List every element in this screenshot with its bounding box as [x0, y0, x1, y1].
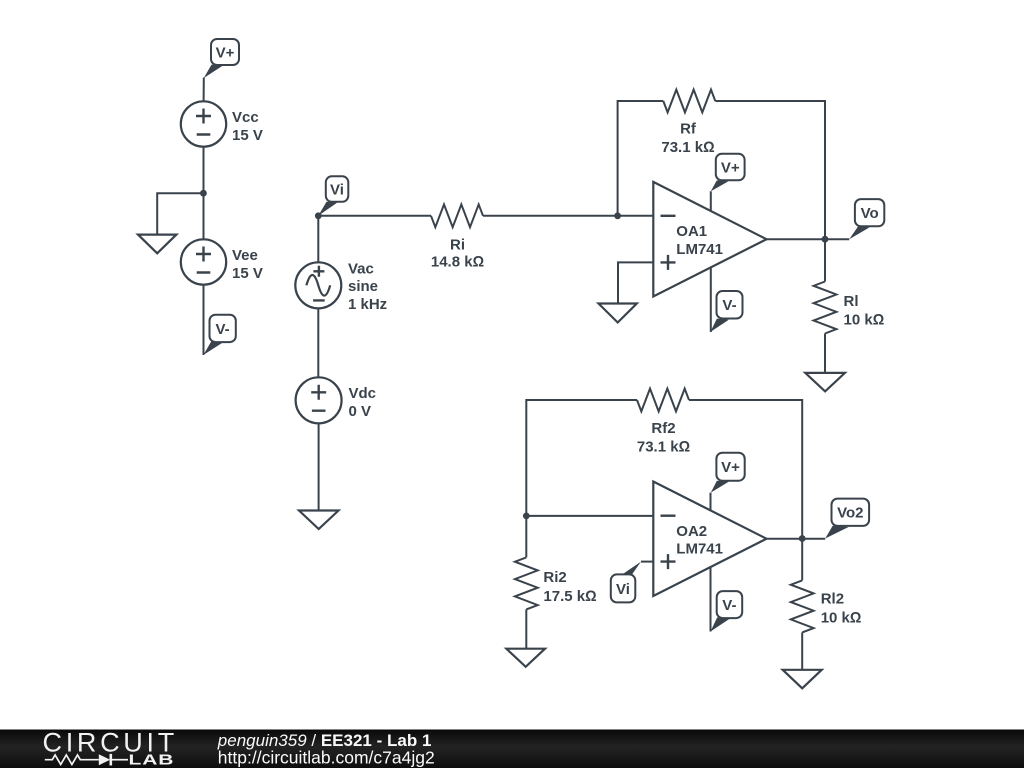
voltage source Vee 15 V [181, 239, 263, 284]
wire Rl to ground [824, 334, 826, 373]
ground (Rl) [805, 373, 845, 392]
svg-text:73.1 kΩ: 73.1 kΩ [637, 439, 690, 456]
node OA1 output junction [822, 236, 829, 243]
resistor Rl2 10 k [791, 580, 862, 632]
svg-text:Rf: Rf [680, 120, 697, 137]
resistor Rf2 73.1 k [637, 389, 690, 456]
svg-text:LM741: LM741 [676, 241, 723, 258]
wire junction to ground [157, 193, 203, 234]
svg-text:LAB: LAB [129, 752, 175, 768]
svg-text:Rl2: Rl2 [821, 591, 844, 608]
ground (Rl2) [783, 670, 822, 689]
svg-text:V-: V- [722, 297, 736, 314]
svg-text:Vdc: Vdc [349, 385, 377, 402]
svg-text:http://circuitlab.com/c7a4jg2: http://circuitlab.com/c7a4jg2 [218, 748, 435, 768]
svg-text:Vcc: Vcc [232, 109, 259, 126]
svg-text:Rf2: Rf2 [651, 420, 675, 437]
svg-text:Ri: Ri [450, 237, 465, 254]
svg-text:10 kΩ: 10 kΩ [844, 312, 885, 329]
svg-text:14.8 kΩ: 14.8 kΩ [431, 253, 484, 270]
resistor Ri2 17.5 k [515, 557, 597, 609]
wire feedback left riser OA2 [526, 400, 637, 557]
wire Ri to inverting node [483, 215, 653, 217]
svg-text:Vee: Vee [232, 247, 258, 264]
net flag Vi (OA2 + input) [611, 562, 641, 603]
svg-text:1 kHz: 1 kHz [348, 296, 387, 313]
wire Vee to V- [203, 285, 205, 355]
net flag Vo2 [825, 499, 869, 539]
svg-text:Vo: Vo [861, 205, 879, 222]
footer bar [0, 730, 1024, 768]
voltage source Vac sine 1 kHz [295, 261, 387, 313]
node OA1 inverting input junction [614, 212, 621, 219]
net flag Vi (source) [318, 176, 348, 216]
wire Rl2 to ground [801, 632, 803, 669]
svg-text:Rl: Rl [844, 293, 859, 310]
wire OA2 + input stub [641, 561, 653, 563]
wire OA1 output [767, 238, 850, 240]
resistor Rf 73.1 k [661, 90, 715, 156]
svg-text:V+: V+ [721, 160, 740, 177]
svg-text:V-: V- [722, 597, 736, 614]
net flag V+ (OA1) [711, 154, 745, 192]
wire OA1 V- pin [710, 268, 712, 332]
net flag V- (OA1) [710, 291, 742, 332]
op-amp OA1 LM741 [653, 182, 766, 297]
wire feedback right riser OA1 [715, 101, 825, 236]
svg-text:Vi: Vi [330, 182, 344, 199]
svg-text:Vi: Vi [616, 581, 630, 598]
wire OA1 V+ pin [710, 191, 712, 211]
net flag V+ (power) [204, 39, 239, 78]
svg-text:OA1: OA1 [676, 223, 707, 240]
svg-text:V+: V+ [721, 459, 740, 476]
resistor Ri 14.8 k [431, 204, 484, 270]
wire Vo node to Rl [824, 239, 826, 281]
wire Vdc to ground [318, 423, 320, 510]
ground (power mid) [138, 235, 176, 254]
svg-text:OA2: OA2 [676, 523, 707, 540]
ground (OA1 + input) [599, 304, 637, 323]
wire Vo2 node to Rl2 [801, 539, 803, 581]
wire OA2 output [767, 538, 826, 540]
svg-text:V+: V+ [216, 44, 235, 61]
wire V+ to Vcc [203, 78, 205, 102]
svg-text:sine: sine [348, 278, 378, 295]
voltage source Vdc 0 V [296, 377, 376, 423]
node junction at ground tap [200, 190, 207, 197]
svg-text:17.5 kΩ: 17.5 kΩ [543, 588, 596, 605]
svg-text:Vo2: Vo2 [837, 505, 863, 522]
voltage source Vcc 15 V [181, 101, 263, 146]
svg-text:LM741: LM741 [676, 540, 723, 557]
node OA2 inverting input junction [523, 513, 530, 520]
CircuitLab logo resistor-diode glyph [45, 754, 128, 766]
svg-text:15 V: 15 V [232, 265, 263, 282]
wire Ri2 to ground [525, 609, 527, 648]
op-amp OA2 LM741 [653, 482, 766, 597]
svg-text:V-: V- [216, 321, 230, 338]
ground (Ri2) [506, 649, 545, 667]
net flag V+ (OA2) [711, 453, 745, 493]
wire OA1 + input to ground [618, 262, 653, 303]
svg-text:Vac: Vac [348, 261, 374, 278]
wire OA2 V- pin [710, 566, 712, 631]
svg-text:Ri2: Ri2 [543, 569, 566, 586]
ground (source column) [299, 511, 339, 530]
svg-text:15 V: 15 V [232, 127, 263, 144]
resistor Rl 10 k [814, 282, 885, 334]
svg-text:0 V: 0 V [349, 403, 372, 420]
node OA2 output junction [799, 535, 806, 542]
node Vi junction [315, 212, 322, 219]
wire feedback right riser OA2 [689, 400, 802, 536]
wire Vcc to Vee [203, 147, 205, 240]
wire Vi node down to Vac [317, 216, 319, 262]
wire Vac to Vdc [317, 308, 319, 377]
net flag V- (OA2) [711, 591, 743, 631]
wire Vi node to Ri [318, 215, 431, 217]
svg-text:73.1 kΩ: 73.1 kΩ [661, 139, 714, 156]
net flag V- (power) [203, 315, 236, 355]
net flag Vo [849, 199, 884, 239]
wire feedback left riser OA1 [618, 101, 664, 216]
wire OA2 inverting input [526, 515, 653, 517]
svg-text:10 kΩ: 10 kΩ [821, 610, 862, 627]
wire OA2 V+ pin [710, 493, 712, 511]
